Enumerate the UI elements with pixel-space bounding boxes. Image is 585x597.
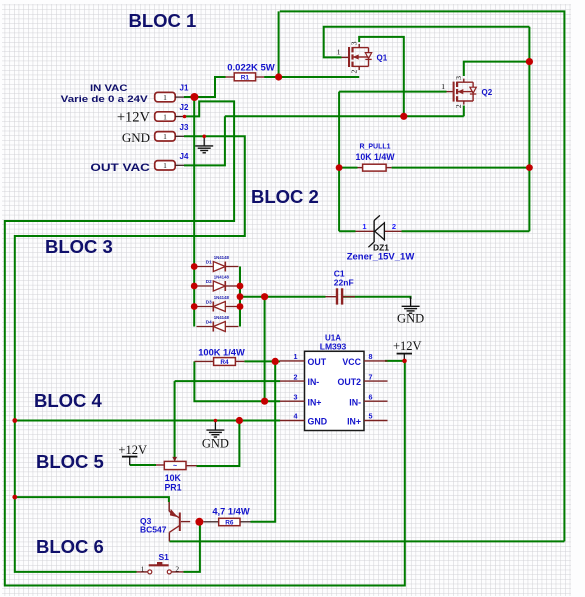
wire J4 to bus [184, 116, 225, 165]
svg-text:1: 1 [163, 132, 167, 141]
svg-text:S1: S1 [159, 552, 170, 562]
svg-text:J3: J3 [180, 123, 189, 132]
svg-text:GND: GND [202, 437, 229, 451]
junction OUT node [272, 358, 279, 365]
wire Q3 emitter row [169, 540, 564, 542]
label BC547 [140, 525, 167, 535]
op-amp U1A pin 6 IN- [349, 392, 387, 407]
svg-text:100K 1/4W: 100K 1/4W [198, 347, 245, 357]
svg-text:J4: J4 [180, 152, 189, 161]
wire PR1 wiper net [174, 381, 176, 457]
connector J2 [155, 103, 189, 121]
wire top rail [280, 11, 565, 541]
wire J1 to R1 [184, 77, 226, 97]
capacitor C1 [336, 288, 355, 304]
svg-text:IN+: IN+ [347, 417, 361, 427]
svg-text:IN-: IN- [308, 377, 320, 387]
op-amp U1A pin 2 IN- [280, 372, 319, 387]
junction left rail bloc4 [12, 418, 17, 423]
wire right mid vertical [528, 27, 530, 232]
svg-text:10K 1/4W: 10K 1/4W [355, 152, 395, 162]
svg-text:Q2: Q2 [482, 88, 493, 97]
junction D3 right [237, 303, 244, 310]
svg-text:BLOC 6: BLOC 6 [36, 536, 104, 557]
junction bus Q1 drain [400, 113, 407, 120]
transistor Q2 [441, 76, 492, 108]
svg-text:VCC: VCC [342, 357, 361, 367]
label S1 pin2 [175, 564, 179, 573]
label R_PULL1 [359, 144, 390, 151]
svg-text:IN VAC: IN VAC [90, 83, 128, 93]
wire diode mid down to IN+ [264, 297, 266, 402]
label U1A [325, 334, 341, 343]
resistor R_PULL1 [363, 164, 387, 171]
heading BLOC 4 [34, 390, 103, 411]
power +12V at VCC [393, 339, 422, 361]
label GND terminal [122, 130, 150, 145]
diode DZ1 leads [356, 230, 402, 232]
potentiometer PR1 leads [156, 464, 197, 467]
label +12V terminal [117, 110, 151, 126]
switch S1 [137, 562, 184, 574]
svg-text:R_PULL1: R_PULL1 [359, 144, 390, 151]
op-amp U1A box [305, 351, 365, 430]
wire diode rail right [239, 267, 241, 327]
junction R1 right [275, 73, 282, 80]
resistor R1 leads [226, 76, 265, 78]
resistor R4 [214, 358, 236, 366]
svg-text:8: 8 [369, 352, 373, 361]
svg-text:1N4148: 1N4148 [214, 255, 230, 260]
op-amp U1A pin 7 OUT2 [338, 372, 388, 387]
wire R_PULL1 row right [392, 167, 530, 169]
junction C1 branch [261, 293, 268, 300]
wire GND row bloc4 [15, 420, 280, 422]
ground near J3 [195, 136, 213, 153]
label C1 value [334, 278, 354, 288]
wire Q1 gate lead [342, 56, 349, 58]
resistor R6 leads [204, 521, 251, 523]
wire J2 +12V loop [5, 101, 405, 585]
label S1 [159, 552, 170, 562]
label PR1 value [165, 473, 182, 483]
svg-text:PR1: PR1 [164, 483, 181, 493]
wire PR1 right to GND row [197, 421, 240, 467]
label DZ1 pin1 [362, 222, 366, 231]
svg-text:BLOC 2: BLOC 2 [251, 186, 319, 207]
node J2 pin [183, 115, 187, 119]
heading BLOC 5 [36, 451, 104, 472]
svg-text:3: 3 [349, 41, 358, 45]
junction IN+ node [261, 398, 268, 405]
wire S1 right up to R6 node [184, 522, 200, 572]
junction Q2 drain [526, 58, 533, 65]
svg-text:2: 2 [294, 372, 298, 381]
wire R1 right [264, 76, 279, 78]
svg-text:2: 2 [175, 564, 179, 573]
heading BLOC 2 [251, 186, 319, 207]
ground bloc4 [202, 421, 229, 451]
wire Q2 drain [464, 62, 530, 76]
wire C1 to GND [342, 297, 411, 299]
label DZ1 [373, 243, 389, 253]
svg-text:6: 6 [369, 392, 373, 401]
diode DZ1 [368, 215, 384, 247]
svg-text:1: 1 [163, 161, 167, 170]
svg-text:1: 1 [141, 564, 145, 573]
junction GND row PR1 [236, 417, 243, 424]
svg-text:3: 3 [454, 76, 463, 80]
svg-text:IN+: IN+ [308, 397, 322, 407]
svg-text:1N4148: 1N4148 [214, 274, 230, 279]
svg-text:OUT2: OUT2 [338, 377, 362, 387]
svg-text:1: 1 [294, 352, 298, 361]
wire J3 GND loop [15, 136, 245, 572]
wire Q2 gate to R_PULL1/DZ1 [338, 92, 340, 232]
svg-text:D1: D1 [206, 259, 212, 264]
svg-text:OUT: OUT [308, 357, 327, 367]
wire VCC pin8 [385, 360, 405, 362]
svg-text:Zener_15V_1W: Zener_15V_1W [347, 252, 415, 263]
svg-text:BC547: BC547 [140, 525, 167, 535]
svg-text:D3: D3 [206, 299, 212, 304]
label IN VAC [90, 83, 128, 93]
svg-text:10K: 10K [165, 473, 182, 483]
wire R4 left to IN+ [194, 361, 280, 401]
wire bloc6 base row [15, 497, 169, 502]
junction J1 node [190, 93, 198, 101]
diode D3 [197, 295, 239, 312]
wire Q1 drain to bus [359, 37, 404, 116]
svg-text:LM393: LM393 [320, 341, 347, 351]
svg-text:7: 7 [369, 372, 373, 381]
heading BLOC 3 [45, 236, 113, 257]
ground near C1 [397, 297, 424, 326]
potentiometer PR1 [164, 457, 186, 470]
junction D2 left [191, 283, 198, 290]
label OUT VAC [90, 162, 150, 174]
svg-text:D2: D2 [206, 279, 212, 284]
junction R_PULL1 left [336, 164, 343, 171]
label R6 value [212, 506, 249, 516]
svg-text:GND: GND [122, 130, 150, 145]
wire +12V to PR1 [130, 464, 156, 466]
wire diode rail left [193, 97, 195, 327]
op-amp U1A pin 8 VCC [342, 352, 387, 367]
svg-text:+12V: +12V [117, 110, 151, 126]
wire R4 right to OUT [244, 360, 280, 362]
wire Q2 gate lead [447, 91, 453, 93]
power +12V bloc5 [118, 443, 147, 465]
svg-text:2: 2 [392, 222, 396, 231]
resistor R6 [219, 518, 240, 526]
svg-text:GND: GND [397, 312, 424, 326]
svg-text:1: 1 [163, 112, 167, 121]
transistor Q1 [337, 41, 388, 73]
junction R_PULL1 right [526, 164, 533, 171]
wire OUT down to R6 [251, 361, 276, 521]
svg-text:4,7 1/4W: 4,7 1/4W [212, 506, 249, 516]
label Varie de 0 a 24V [61, 94, 149, 105]
svg-text:~: ~ [173, 463, 177, 470]
label R_PULL1 value [355, 152, 395, 162]
svg-text:1: 1 [337, 48, 341, 57]
svg-text:1: 1 [163, 93, 167, 102]
resistor R1 [234, 73, 255, 81]
junction left rail bloc6 [12, 495, 17, 500]
wire Q2 source stub [463, 106, 465, 117]
node J3 gnd [202, 135, 206, 139]
transistor Q3 [169, 502, 190, 541]
op-amp U1A pin 4 GND [280, 412, 327, 427]
capacitor C1 leads [326, 296, 344, 298]
svg-text:+12V: +12V [118, 443, 147, 457]
wire OUT-VAC bus [225, 115, 464, 117]
svg-text:0.022K 5W: 0.022K 5W [227, 63, 275, 74]
svg-text:R6: R6 [225, 519, 234, 526]
svg-text:BLOC 1: BLOC 1 [129, 10, 197, 31]
svg-text:2: 2 [454, 104, 463, 108]
svg-text:+12V: +12V [393, 339, 422, 353]
wire DZ1 row right [402, 230, 530, 232]
svg-text:BLOC 4: BLOC 4 [34, 390, 103, 411]
svg-text:4: 4 [294, 412, 298, 421]
svg-text:Q1: Q1 [377, 54, 388, 63]
label Q3 [140, 516, 152, 526]
svg-text:2: 2 [349, 70, 358, 74]
svg-text:BLOC 3: BLOC 3 [45, 236, 113, 257]
node gnd bloc4 [214, 419, 218, 423]
label S1 pin1 [141, 564, 145, 573]
label Zener_15V_1W [347, 252, 415, 263]
diode D4 [197, 315, 239, 332]
svg-text:1N4148: 1N4148 [214, 315, 230, 320]
connector J3 [155, 123, 189, 141]
wire IN- row [175, 380, 280, 382]
junction D1 left [191, 263, 198, 270]
wire Q1 gate rail [324, 27, 530, 58]
resistor R4 leads [194, 360, 244, 362]
heading BLOC 6 [36, 536, 104, 557]
svg-text:D4: D4 [206, 319, 212, 324]
svg-text:GND: GND [308, 417, 328, 427]
wire Q2 gate [339, 91, 446, 93]
svg-text:OUT VAC: OUT VAC [90, 162, 150, 174]
label C1 [334, 269, 345, 279]
wire Q1 source row [279, 76, 360, 78]
svg-text:BLOC 5: BLOC 5 [36, 451, 104, 472]
svg-text:1: 1 [441, 82, 445, 91]
node VCC 12V [402, 359, 407, 364]
label LM393 [320, 341, 347, 351]
diode D1 [197, 255, 239, 272]
junction diode mid [237, 293, 244, 300]
label R1 value [227, 63, 275, 74]
svg-text:1: 1 [362, 222, 366, 231]
svg-text:1N4148: 1N4148 [214, 295, 230, 300]
svg-text:R4: R4 [220, 359, 229, 366]
junction D2 right [237, 283, 244, 290]
heading BLOC 1 [129, 10, 197, 31]
svg-text:Varie de 0 a 24V: Varie de 0 a 24V [61, 94, 149, 105]
svg-text:22nF: 22nF [334, 278, 354, 288]
op-amp U1A pin 5 IN+ [347, 412, 387, 427]
label DZ1 pin2 [392, 222, 396, 231]
op-amp U1A pin 1 OUT [280, 352, 327, 367]
wire diode mid to C1 [240, 296, 326, 298]
wire R_PULL1 row left [339, 167, 357, 169]
svg-text:IN-: IN- [349, 397, 361, 407]
svg-text:R1: R1 [241, 74, 250, 81]
resistor R_PULL1 leads [358, 167, 392, 169]
label PR1 [164, 483, 181, 493]
svg-text:J2: J2 [180, 103, 189, 112]
junction D3 left [191, 303, 198, 310]
label R4 value [198, 347, 245, 357]
wire DZ1 row left [339, 230, 355, 232]
svg-text:3: 3 [294, 392, 298, 401]
diode D2 [197, 274, 239, 291]
connector J4 [155, 152, 189, 170]
junction Q3 collector [195, 518, 203, 526]
svg-text:J1: J1 [180, 84, 189, 93]
connector J1 [155, 84, 189, 102]
op-amp U1A pin 3 IN+ [280, 392, 321, 407]
wire R1 right to top [278, 11, 280, 77]
svg-text:5: 5 [369, 412, 373, 421]
